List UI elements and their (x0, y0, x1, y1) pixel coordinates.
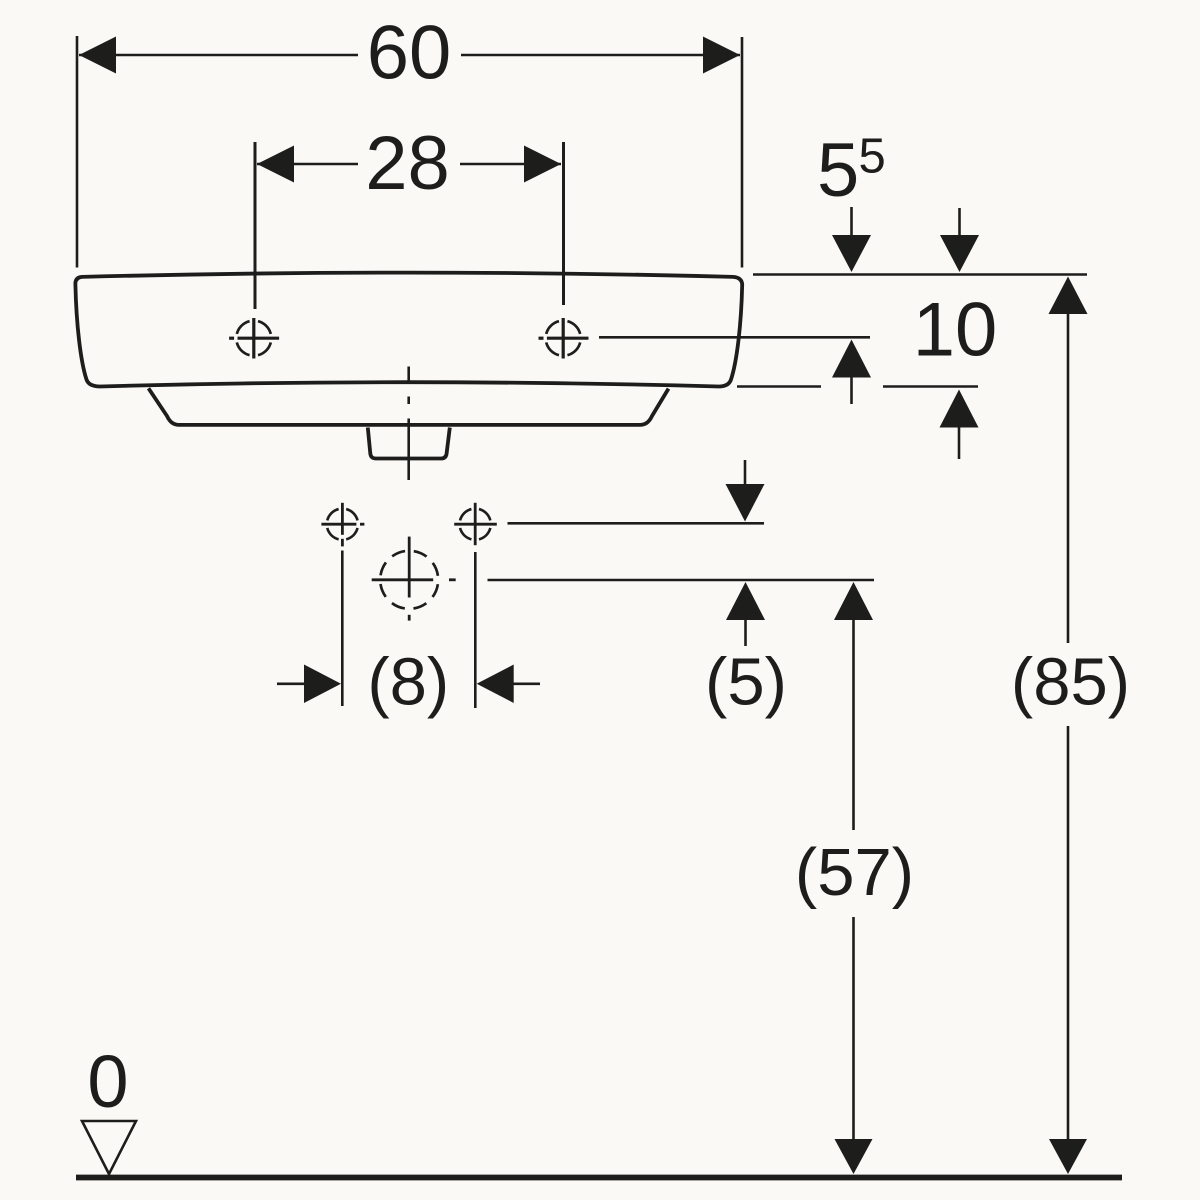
svg-text:5: 5 (817, 128, 859, 213)
svg-text:(85): (85) (1011, 645, 1130, 720)
svg-text:(5): (5) (705, 645, 787, 720)
svg-text:28: 28 (365, 121, 450, 206)
svg-text:5: 5 (859, 130, 886, 184)
svg-text:10: 10 (913, 288, 998, 373)
svg-text:(8): (8) (367, 645, 449, 720)
svg-text:0: 0 (87, 1040, 128, 1123)
svg-text:(57): (57) (795, 835, 914, 910)
svg-text:60: 60 (367, 11, 452, 96)
